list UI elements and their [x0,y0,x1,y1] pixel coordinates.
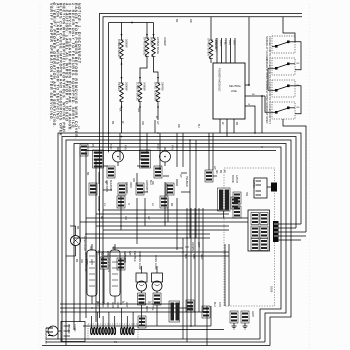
svg-text:CLOSED FOR TILT: CLOSED FOR TILT [268,80,271,102]
wire h5 [96,225,229,227]
bottom right ground cluster [230,311,254,329]
svg-text:GRN: GRN [90,259,93,265]
mid vertical risers [99,133,224,250]
cluster above board [231,197,239,209]
wire v3 [139,133,141,160]
bus run 4 [74,144,286,343]
svg-text:WHT: WHT [97,250,100,256]
wire f3 [278,231,306,233]
pin wire 4 [230,38,232,63]
svg-text:YEL/RED: YEL/RED [185,176,188,187]
svg-text:GRY/ORN: GRY/ORN [123,251,126,263]
wire v9 [212,133,214,170]
wire label cluster above lamps [101,251,157,270]
bottom bus B [60,307,193,309]
notice text block (rotated) [49,3,81,140]
relay board K1 [248,210,270,251]
pin wire 2 [221,38,223,63]
glo-bar broil ignitor [107,244,127,304]
connector cluster low left [97,250,108,269]
svg-text:BK: BK [75,259,78,263]
oven lamp 1 [136,266,147,326]
wire L1 drop to module [245,17,250,86]
svg-text:BLU: BLU [149,180,152,185]
door switch S4 [265,102,300,124]
bottom bus D [83,325,211,327]
wire v4 [146,133,148,152]
oven light L1 [66,226,87,256]
svg-text:BLK: BLK [184,254,187,259]
wire b4 [194,250,196,326]
svg-text:RED/WHT: RED/WHT [125,182,128,194]
svg-text:WHT: WHT [128,251,131,257]
svg-text:BLU: BLU [228,40,232,45]
wire v14 [136,198,138,244]
svg-text:OVEN LIGHT: OVEN LIGHT [83,236,87,252]
svg-text:LOWER BAKE: LOWER BAKE [117,39,121,57]
wire f5 [278,239,301,241]
svg-text:WHT/BLK: WHT/BLK [165,184,168,195]
connector below M2 [154,166,162,178]
svg-text:ORN: ORN [129,182,132,188]
svg-text:BK: BK [119,108,123,112]
bus run 3 [66,140,291,346]
svg-text:LATCH: LATCH [235,175,238,183]
svg-text:RED/BLK: RED/BLK [133,251,136,262]
svg-text:BK: BK [76,226,79,230]
svg-text:POWER MODULE: POWER MODULE [218,68,222,91]
svg-text:ORN/BLK: ORN/BLK [191,242,194,253]
wire link S1-S2 [295,42,301,70]
glo-bar bake ignitor [84,244,104,304]
wire switch chain down to control [283,119,306,232]
connector row 2 [89,183,97,195]
wire h1 [103,209,229,211]
wire v7 [182,133,184,167]
svg-text:RED: RED [200,254,203,259]
svg-text:ORN: ORN [116,302,119,308]
wire b3 [190,250,192,326]
svg-text:WHT: WHT [85,259,88,265]
svg-text:OR: OR [137,108,141,112]
heating element upper oven [152,38,156,57]
wire f1 [278,223,301,225]
node junction [131,22,133,24]
wire top bus [109,22,154,24]
top border wire N [103,17,302,133]
svg-text:NEUTRAL: NEUTRAL [229,84,242,88]
wire b7 [206,306,208,346]
svg-text:OR: OR [89,246,92,250]
short link stubs [103,166,217,192]
svg-text:GY: GY [179,174,182,178]
svg-text:GY: GY [147,216,150,220]
svg-text:BU: BU [197,124,200,128]
wire h8 [74,237,210,239]
wire switch chain exit [265,96,272,112]
wire v20 [223,211,225,218]
svg-text:BRN: BRN [145,306,148,311]
wire v8 [208,133,210,170]
wire left drop [108,23,110,134]
connector CN11 [117,258,125,270]
svg-text:UPPER BAKE: UPPER BAKE [156,37,160,54]
svg-text:CORD: CORD [73,324,76,332]
svg-text:VERIFY PROPER OPERATION AFTER: VERIFY PROPER OPERATION AFTER SERVICING. [49,3,53,121]
heating element warm zone [156,83,160,102]
svg-text:N: N [69,126,72,128]
svg-text:SPARK: SPARK [161,82,165,91]
wire element col 1 [121,23,123,41]
svg-text:GY: GY [148,301,152,304]
svg-text:POWER: POWER [67,324,70,334]
door switch S2 [265,58,300,80]
wire labels above P1 [96,302,221,311]
notice text echo [49,3,81,140]
svg-text:3400W: 3400W [163,37,167,46]
svg-text:GRY: GRY [233,40,237,46]
pin wire 1 [216,38,218,63]
wire labels above mid buses [111,121,200,128]
svg-text:BK: BK [170,203,173,207]
left riser 7 [95,160,97,322]
svg-text:YEL: YEL [151,306,154,311]
svg-text:BLK: BLK [106,251,109,256]
power module U1 [213,38,245,119]
door switch S1 [265,36,295,61]
svg-text:FAN: FAN [124,145,128,150]
wire b6 [202,250,204,312]
oven sensor element [207,17,219,63]
svg-text:N: N [127,203,130,205]
svg-text:GRN: GRN [111,302,114,308]
bottom bus A [60,303,180,305]
svg-text:VIOLET: VIOLET [117,82,121,92]
small connector left edge [80,144,94,156]
wire link S2-S3 [268,68,272,90]
svg-text:TOD: TOD [109,144,113,150]
pin wire 3 [225,38,227,63]
wire pair lower mid [96,248,229,256]
svg-text:NORMALLY OPEN: NORMALLY OPEN [265,58,268,79]
wire line out [245,104,255,133]
wire labels above bus group [103,203,173,207]
svg-text:BK: BK [219,170,222,174]
svg-text:3400W: 3400W [143,82,147,91]
middle components row [86,144,230,211]
wire v17 [164,182,166,226]
svg-text:DOOR: DOOR [231,175,234,183]
wire h7 [86,233,210,235]
surface unit motor M2 [160,151,171,162]
svg-text:BLK: BLK [96,302,99,307]
module bottom pins [220,119,234,137]
svg-text:SW: SW [245,192,248,197]
svg-text:GRN: GRN [251,311,254,317]
wire v11 [136,173,138,186]
wire v12 [176,179,178,186]
svg-text:BK: BK [175,19,178,23]
svg-text:BK: BK [235,122,238,126]
svg-text:ORN: ORN [219,40,223,46]
svg-text:NORMALLY OPEN: NORMALLY OPEN [265,80,268,101]
heating element upper bake [120,40,124,59]
svg-text:BLU: BLU [213,302,216,307]
bottom border bus F [46,338,260,340]
svg-text:WHT: WHT [197,242,200,248]
wire v19 [195,140,197,238]
svg-text:8101P550-60: 8101P550-60 [44,328,48,344]
svg-text:RD: RD [189,19,192,23]
connector below M1 [107,166,115,178]
svg-text:WHT: WHT [192,254,195,260]
connector CN10 [160,196,168,208]
control board feed horizontals [278,224,306,240]
oven lamp 2 [152,266,163,326]
svg-text:NORMALLY OPEN: NORMALLY OPEN [265,102,268,123]
bottom border bus H [42,345,270,347]
pin wire 5 [234,38,236,63]
wire b8 [210,306,212,326]
svg-text:BK: BK [111,121,114,125]
svg-text:WHT: WHT [101,302,104,308]
svg-text:RD: RD [177,124,180,128]
wire b1 [182,238,184,339]
wire v1 [108,133,110,152]
fold line left [39,4,41,348]
top-left bake/broil element group [109,22,168,133]
svg-text:GRY: GRY [125,302,128,308]
svg-text:OVEN LAMP: OVEN LAMP [138,255,141,270]
heating element lower broil [138,83,142,102]
wire v6 [176,133,178,167]
svg-text:OR: OR [124,216,127,220]
svg-text:BK: BK [86,172,89,176]
svg-text:BAKE IGNITOR: BAKE IGNITOR [154,82,158,101]
svg-text:RED-BRN: RED-BRN [215,40,219,52]
svg-text:CLOSED FOR TILT: CLOSED FOR TILT [268,102,271,124]
svg-text:UPPER BROIL: UPPER BROIL [143,37,147,56]
ground symbol 1 [232,323,237,329]
svg-text:2600W: 2600W [125,82,129,91]
wire v5 [159,133,161,170]
small part right of lamps [202,306,210,318]
svg-text:D309: D309 [270,286,274,293]
wire h4 [80,221,248,223]
svg-text:TOD: TOD [156,144,160,150]
svg-text:NORMALLY CLOSED: NORMALLY CLOSED [265,36,268,61]
bottom bus E [134,329,224,331]
svg-text:TAN: TAN [218,302,221,307]
wire element col 2 [146,23,148,39]
heating element lower bake [120,83,124,102]
heating element upper broil [145,38,149,57]
wire b5 [198,250,200,312]
terminal strip TS1 [218,188,231,211]
board edge connector strip [273,221,279,242]
door switch S3 [265,80,300,102]
wire v10 [98,172,100,184]
bus run 2 [62,137,296,343]
relay stack A [93,150,104,168]
wire f4 [278,235,306,237]
wire v13 [98,196,100,210]
extra wire drops [104,120,229,306]
label cluster below oven light [75,259,93,265]
wire h6 [103,229,229,231]
svg-text:MC: MC [215,170,218,174]
main harness connector P1 [88,308,138,344]
wire h3 [86,217,248,219]
power supply cord plug [46,326,61,336]
bus run 5 [80,147,281,339]
wire v16 [120,196,122,230]
connector arrows [121,34,160,108]
bottom wire bundle risers [183,238,211,346]
wire link S3-S4 [295,86,301,114]
fold line right [309,4,311,348]
svg-text:BK: BK [100,216,103,220]
svg-text:GY: GY [156,121,159,125]
misc clusters for density [117,196,194,312]
svg-text:LINE: LINE [231,89,237,93]
bottom bus C [60,311,204,313]
left riser 8 [99,133,101,318]
svg-text:GRY/WHT: GRY/WHT [145,180,148,192]
svg-text:LOWER BROIL: LOWER BROIL [136,82,140,101]
surface unit motor M1 [113,151,124,162]
connector CN12 [186,300,194,312]
bus run 6 [86,151,276,319]
svg-text:CLOSED FOR TILT: CLOSED FOR TILT [268,36,271,58]
svg-text:YEL: YEL [224,40,228,45]
svg-text:OVEN LAMP: OVEN LAMP [154,255,157,270]
mid horizontal bus group [74,210,248,238]
svg-text:RED: RED [106,302,109,307]
svg-text:OR: OR [141,121,144,125]
svg-text:LATCH: LATCH [252,180,255,188]
wire v2 [119,133,121,160]
svg-text:2600W: 2600W [125,39,129,48]
svg-text:OR: OR [80,259,83,263]
ground symbol 2 [243,323,248,329]
left riser 9 [102,133,104,303]
wire b2 [186,250,188,342]
top border wire L1 [100,14,303,134]
vertical connector strip center bottom [169,301,180,322]
connector cluster left [233,192,241,218]
svg-text:FAN: FAN [171,145,175,150]
wire labels mid band [61,126,248,260]
small cluster near plug [138,316,146,328]
bottom border bus G [46,341,265,343]
svg-text:UPPER OVEN: UPPER OVEN [207,38,211,56]
svg-text:WHT/BRN: WHT/BRN [101,251,104,263]
wire f2 [278,227,296,229]
connector CN9 [117,196,125,208]
relay stack B [140,150,151,168]
wire neutral out [245,94,265,133]
wire v18 [189,140,191,238]
wire switch top feed [283,17,295,42]
wire v15 [176,198,178,250]
wire element col 3 [153,23,155,39]
terminal block TB [61,322,85,342]
electronic oven control dashed box [224,168,275,306]
wire h2 [96,213,229,215]
bus run 1 left-mid-right [58,133,301,339]
svg-text:CLOSED FOR TILT: CLOSED FOR TILT [268,58,271,80]
door latch switch [252,178,277,198]
